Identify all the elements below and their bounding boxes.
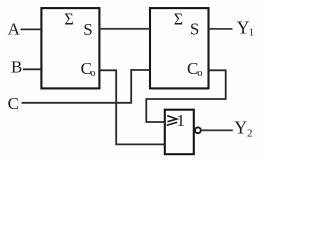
svg-text:1: 1 — [249, 27, 254, 38]
wire U1.Co to U3 lower input — [99, 70, 164, 144]
label >=1 (U3) — [167, 116, 177, 122]
wire A to U1 — [21, 28, 42, 30]
svg-text:Σ: Σ — [64, 10, 73, 29]
svg-text:A: A — [8, 20, 21, 39]
svg-text:B: B — [11, 58, 22, 77]
svg-text:Y: Y — [234, 118, 247, 138]
svg-text:o: o — [90, 68, 95, 79]
wire U3 bubble to Y2 — [201, 129, 233, 131]
wire C horizontal run — [22, 70, 151, 103]
svg-text:S: S — [83, 20, 92, 39]
svg-text:C: C — [8, 94, 19, 113]
svg-text:o: o — [197, 68, 202, 79]
output bubble (U3) — [195, 127, 201, 133]
svg-text:S: S — [190, 19, 199, 38]
half-adder U1 box — [41, 8, 99, 88]
wire U2.S to Y1 — [209, 28, 233, 30]
wire U1.S to U2 input — [99, 28, 150, 30]
svg-text:1: 1 — [177, 111, 186, 130]
wire U2.Co to U3 upper input — [146, 70, 225, 122]
or-gate U3 box — [165, 110, 194, 155]
svg-text:2: 2 — [247, 128, 253, 140]
wire B to U1 — [23, 68, 41, 70]
svg-text:Y: Y — [237, 17, 250, 37]
svg-text:Σ: Σ — [174, 10, 183, 29]
half-adder U2 box — [150, 8, 209, 88]
